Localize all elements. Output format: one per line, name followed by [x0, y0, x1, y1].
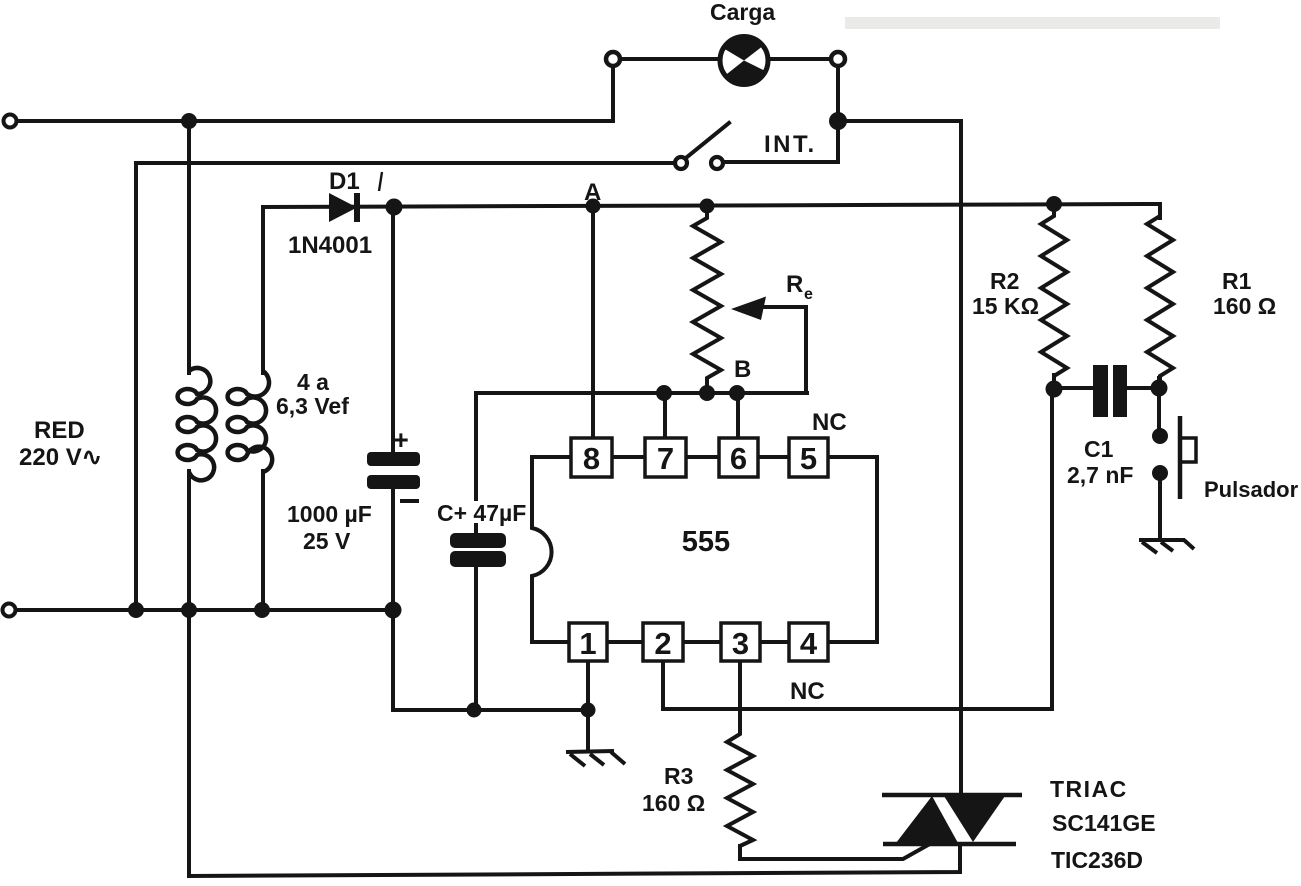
pin 2 box: [643, 623, 683, 661]
wire lamp right lead: [767, 57, 832, 61]
svg-text:R1: R1: [1222, 268, 1252, 294]
svg-text:5: 5: [800, 441, 817, 476]
pin 5 box: [789, 438, 828, 477]
svg-text:+: +: [393, 425, 409, 455]
wire primary bottom lead: [187, 471, 191, 610]
wire pin7 riser: [663, 395, 667, 438]
potentiometer Re zigzag: [693, 206, 721, 393]
svg-text:160 Ω: 160 Ω: [1213, 293, 1276, 319]
ground pushbutton: [1139, 540, 1194, 553]
pushbutton Pulsador actuator: [1180, 416, 1196, 499]
capacitor C2 1000uF plates: [367, 452, 420, 489]
wire C3 bottom lead: [474, 565, 478, 710]
svg-text:3: 3: [732, 626, 749, 661]
terminal mains top-left: [4, 115, 17, 128]
wire bottom mains (neutral) rail: [15, 608, 393, 612]
capacitor C3 47uF plates: [450, 533, 506, 567]
svg-text:4: 4: [800, 626, 818, 661]
svg-text:INT.: INT.: [764, 131, 817, 158]
transformer secondary coil: [228, 371, 273, 472]
svg-text:6,3 Vef: 6,3 Vef: [276, 393, 349, 419]
svg-text:RED: RED: [34, 417, 85, 444]
wire pin6 riser: [736, 395, 740, 438]
svg-text:NC: NC: [790, 678, 825, 705]
svg-text:A: A: [584, 179, 601, 206]
pin 8 box: [571, 438, 612, 477]
wire C1 right lead: [1127, 386, 1159, 390]
svg-text:2,7 nF: 2,7 nF: [1067, 462, 1133, 488]
wire bottom bus to triac MT1: [189, 845, 960, 876]
capacitor C2 minus sign: [400, 499, 419, 503]
svg-text:7: 7: [657, 441, 674, 476]
wire neutral down to bottom bus: [187, 610, 191, 876]
svg-text:B: B: [734, 356, 751, 383]
svg-text:555: 555: [682, 526, 730, 558]
stray scan tick: [379, 172, 382, 191]
resistor R1 zigzag: [1147, 216, 1173, 388]
svg-text:220 V∿: 220 V∿: [19, 444, 102, 471]
svg-text:1: 1: [579, 626, 596, 661]
pin 4 box: [789, 623, 828, 661]
pin 3 box: [721, 623, 760, 661]
wire secondary bottom lead: [261, 471, 265, 610]
svg-text:2: 2: [654, 626, 671, 661]
svg-text:1N4001: 1N4001: [288, 232, 372, 259]
svg-text:NC: NC: [812, 409, 847, 436]
transformer primary coil: [178, 368, 216, 480]
wire R3 bottom to triac gate: [740, 845, 928, 859]
wire R1 bottom lead: [1157, 378, 1161, 388]
capacitor C1 plates: [1093, 365, 1127, 417]
terminal mains bottom-left: [3, 604, 16, 617]
wire junction to right then down to triac MT2: [844, 121, 961, 793]
wire left riser x136: [134, 163, 138, 610]
svg-text:Pulsador: Pulsador: [1204, 477, 1299, 502]
pin 1 box: [569, 623, 607, 661]
wire pin3 to R3: [738, 661, 742, 727]
resistor R2 zigzag: [1041, 204, 1067, 376]
resistor R3 zigzag: [727, 727, 753, 846]
wire C1 left lead: [1054, 386, 1093, 390]
svg-text:SC141GE: SC141GE: [1052, 810, 1156, 836]
potentiometer Re wiper arrow: [731, 297, 766, 321]
pin 7 box: [645, 438, 686, 477]
wire C2 node down and right to ground bus: [393, 610, 588, 710]
wire lamp right terminal down to junction: [836, 66, 840, 121]
svg-text:15 KΩ: 15 KΩ: [972, 293, 1039, 319]
IC U1 555 body: [532, 457, 877, 642]
scan smudge top right: [845, 17, 1220, 29]
svg-text:1000 µF: 1000 µF: [287, 501, 372, 527]
wire Re wiper to node B: [757, 307, 806, 391]
wire C2 negative lead to neutral rail: [391, 489, 395, 610]
pin 6 box: [719, 438, 758, 477]
wire pin1 to ground: [586, 661, 590, 749]
svg-text:6: 6: [730, 441, 747, 476]
lamp left terminal: [606, 52, 620, 66]
wire switch feed from left riser: [136, 161, 672, 165]
lamp right terminal: [831, 52, 845, 66]
wire pin2 to R2/C1 node: [663, 389, 1052, 709]
wire pushbutton upper lead: [1157, 388, 1161, 429]
svg-text:Carga: Carga: [710, 0, 775, 25]
wire C3 top lead stub: [474, 525, 478, 534]
wire R1 top corner from DC rail: [1158, 204, 1162, 218]
wire top-left mains to lamp: [16, 66, 613, 121]
svg-text:25 V: 25 V: [303, 528, 351, 554]
wire C2 positive lead from DC rail: [391, 206, 395, 452]
wire pushbutton lower lead to ground: [1158, 480, 1162, 539]
wire switch right contact to junction riser: [725, 127, 838, 162]
diode D1: [329, 193, 357, 222]
svg-text:e: e: [804, 286, 813, 303]
switch INT left contact: [675, 157, 687, 169]
svg-text:R2: R2: [990, 268, 1019, 294]
wire primary top lead: [187, 121, 191, 373]
wire DC rail (diode anode to R1 corner): [263, 204, 1160, 207]
svg-text:160 Ω: 160 Ω: [642, 790, 705, 816]
svg-text:D1: D1: [329, 168, 360, 195]
wire secondary top lead: [261, 207, 265, 373]
switch INT right contact: [711, 157, 723, 169]
svg-text:C1: C1: [1084, 436, 1114, 462]
svg-text:R: R: [786, 271, 803, 298]
svg-text:C+ 47µF: C+ 47µF: [437, 500, 526, 526]
svg-text:R3: R3: [664, 763, 693, 789]
svg-text:TIC236D: TIC236D: [1051, 847, 1143, 873]
lamp Carga: [720, 37, 768, 85]
svg-text:4 a: 4 a: [297, 369, 329, 395]
wire lamp left lead: [620, 57, 722, 61]
wire pin8 riser from node A: [591, 206, 595, 438]
wire node B bus: [476, 393, 807, 499]
triac SC141GE: [882, 795, 1022, 844]
wire R2 bottom lead: [1052, 375, 1056, 389]
svg-text:8: 8: [583, 441, 600, 476]
wire switch lever: [687, 123, 729, 157]
svg-text:TRIAC: TRIAC: [1050, 776, 1128, 802]
ground pin1: [566, 751, 625, 766]
